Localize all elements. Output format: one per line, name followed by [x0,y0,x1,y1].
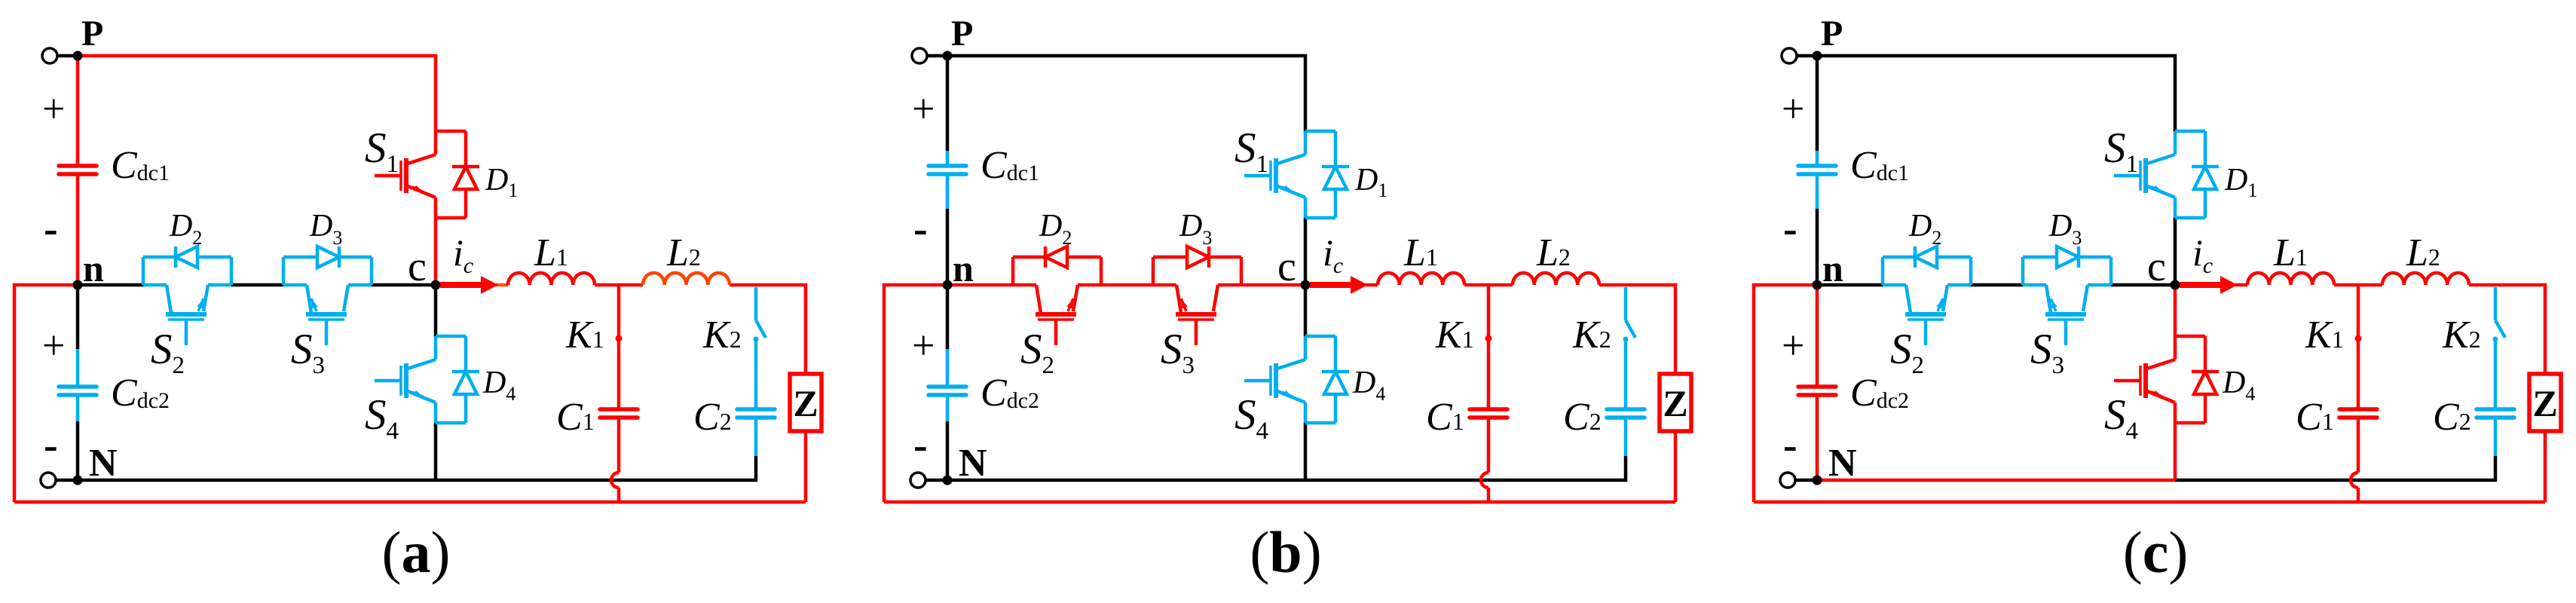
switch K2 (a) (open) [754,287,766,409]
svg-text:C2: C2 [2433,396,2471,439]
wire: hop to return rail (b) [1487,488,1491,502]
svg-text:-: - [1783,206,1797,253]
inductor L2 (c) [2382,273,2469,285]
wire: hop to return rail (a) [617,488,621,502]
transistor S3 (b) (IGBT) [1153,257,1241,345]
transistor S3 (a) (IGBT) [283,257,372,345]
svg-text:n: n [1822,247,1843,289]
wire: N rail left part (c) [1817,479,2175,482]
wire: N rail right part up to C2 (b) [1305,456,1626,480]
wire: P top rail to S1 collector (a) [78,56,436,131]
wire: S4 emitter to N rail (b) [1304,423,1308,480]
svg-text:Z: Z [2532,382,2557,424]
transistor S4 (a) (IGBT) [375,336,466,423]
current arrow ic (b) [1310,276,1368,294]
wire: node c to S4 (c) [2174,285,2177,336]
wire: red return rail (b) [884,500,1675,504]
svg-text:Cdc1: Cdc1 [981,144,1039,187]
switch K2 (b) (open) [1623,287,1636,409]
diode D3 (b) (antiparallel) [1153,246,1241,268]
wire: left rail n to Cdc2 (c) [1816,285,1819,349]
wire: left rail Cdc2 to N (a) [76,421,80,480]
svg-text:Cdc1: Cdc1 [1850,144,1909,187]
svg-text:n: n [83,247,104,289]
wire: N rail left part (b) [947,479,1305,482]
load Z (b) (impedance box) [1660,374,1691,431]
wire: Cdc1 stubs (b) [946,151,950,209]
wire: C2 down blue (c) [2494,419,2498,456]
current arrow ic (a) [440,276,498,294]
svg-text:ic: ic [1323,231,1343,278]
wire: P top rail to S1 collector (b) [947,56,1305,131]
node N dot (c) [1813,476,1822,485]
diode D1 (b) (antiparallel) [1322,131,1349,218]
transistor S3 (c) (IGBT) [2023,257,2111,345]
node N dot (a) [73,476,83,485]
svg-text:L1: L1 [2273,231,2308,274]
svg-text:Cdc2: Cdc2 [981,372,1039,415]
capacitor C1 (b) [1470,409,1507,418]
diode D3 (a) (antiparallel) [283,246,372,268]
svg-text:C1: C1 [1426,396,1464,439]
svg-text:S3: S3 [1161,326,1195,379]
terminal P circle (c) [1782,48,1797,63]
wire: left rail Cdc1 to node n (a) [76,209,80,285]
wire: L1 to L2 with K1 tap (a) [595,283,643,287]
svg-text:D3: D3 [2048,209,2082,249]
inductor L1 (a) [508,273,595,285]
wire: hop to return rail (c) [2357,488,2360,502]
svg-text:D4: D4 [1352,366,1385,405]
transistor S1 (b) (IGBT) [1244,131,1335,218]
svg-text:K2: K2 [2442,314,2481,357]
wire: N rail right part up to C2 (c) [2175,456,2495,480]
svg-text:D3: D3 [309,209,342,249]
svg-text:S1: S1 [2104,124,2138,178]
svg-text:L1: L1 [534,231,568,274]
svg-text:L1: L1 [1403,231,1438,274]
wire: N rail right part up to C2 (a) [436,456,756,480]
wire: arrow to L1 (a) [496,283,508,287]
svg-text:n: n [953,247,974,289]
svg-text:L2: L2 [666,231,701,274]
wire: C1 down (c) [2357,419,2360,473]
svg-text:+: + [912,323,935,368]
load Z (c) (impedance box) [2529,374,2561,431]
wire: left rail P to Cdc1 (a) [76,56,80,151]
inductor L1 (c) [2247,273,2334,285]
svg-text:S1: S1 [1234,124,1268,178]
svg-text:D2: D2 [169,209,202,249]
svg-text:P: P [81,14,103,54]
svg-text:ic: ic [2192,231,2213,278]
node n dot (b) [943,280,953,290]
svg-text:Z: Z [1663,382,1687,424]
svg-text:ic: ic [453,231,473,278]
node n dot (a) [73,280,83,290]
svg-text:Cdc1: Cdc1 [111,144,170,187]
wire: Cdc2 stubs (c) [1816,349,1819,421]
terminal N circle (a) [41,473,56,488]
wire: hop over N rail (c) [2351,473,2358,488]
inductor L2 (a) [643,273,730,285]
diode D4 (a) (antiparallel) [452,336,479,423]
transistor S4 (b) (IGBT) [1244,336,1335,423]
wire: L2 to Z (b) [1599,285,1675,374]
wire: S1 emitter to node c (c) [2174,218,2177,285]
svg-text:c: c [408,243,427,290]
svg-text:-: - [1783,422,1797,469]
diode D4 (b) (antiparallel) [1322,336,1349,423]
svg-text:S2: S2 [1020,326,1054,379]
svg-text:N: N [1828,442,1857,485]
svg-text:S4: S4 [365,391,399,445]
transistor S2 (c) (IGBT) [1883,257,1971,345]
node n dot (c) [1813,280,1822,290]
wire: N terminal stub (b) [925,479,947,482]
svg-text:D1: D1 [1354,163,1387,201]
inductor L2 (b) [1513,273,1599,285]
capacitor C2 (c) [2477,409,2514,418]
wire: C1 down (b) [1487,419,1491,473]
wire: Cdc1 stubs (a) [76,151,80,209]
svg-text:K1: K1 [1435,314,1474,357]
svg-text:S3: S3 [2030,326,2064,379]
capacitor Cdc2 (c) [1798,387,1836,395]
current arrow ic (c) [2180,276,2238,294]
load Z (a) (impedance box) [790,374,821,431]
transistor S2 (a) (IGBT) [143,257,231,345]
diode D1 (c) (antiparallel) [2192,131,2219,218]
wire: N terminal stub (c) [1795,479,1817,482]
wire: left rail Cdc1 to node n (b) [946,209,950,285]
capacitor C1 (c) [2339,409,2377,418]
wire: C2 down blue (a) [754,419,758,456]
transistor S1 (c) (IGBT) [2114,131,2205,218]
capacitor Cdc2 (b) [929,387,966,395]
terminal P circle (a) [42,48,57,63]
wire: L1 to L2 with K1 tap (b) [1464,283,1513,287]
svg-text:C1: C1 [556,396,595,439]
svg-text:L2: L2 [1536,231,1571,274]
wire: left rail Cdc2 to N (b) [946,421,950,480]
svg-text:S3: S3 [291,326,325,379]
svg-text:-: - [44,206,58,253]
wire: left rail n to Cdc2 (b) [946,285,950,349]
wire: left rail Cdc2 to N (c) [1816,421,1819,480]
wire: arrow to L1 (b) [1366,283,1378,287]
svg-text:D2: D2 [1039,209,1072,249]
transistor S2 (b) (IGBT) [1013,257,1101,345]
wire: red loop n to bottom-left (c) [1754,285,1817,502]
svg-text:C1: C1 [2296,396,2334,439]
svg-text:S4: S4 [2104,391,2138,445]
wire: S1 emitter to node c (a) [434,218,438,285]
wire: Z to return rail (c) [2544,431,2547,502]
wire: red return rail (a) [14,500,806,504]
svg-text:+: + [1782,323,1804,368]
diode D1 (a) (antiparallel) [452,131,479,218]
inductor L1 (b) [1378,273,1464,285]
svg-text:+: + [912,86,935,131]
wire: N rail left part (a) [78,479,436,482]
node c dot (c) [2171,280,2180,290]
svg-text:Z: Z [793,382,818,424]
wire: arrow to L1 (c) [2235,283,2247,287]
svg-text:D4: D4 [2222,366,2255,405]
svg-text:S1: S1 [365,124,399,178]
wire: C1 down (a) [617,419,621,473]
diode D3 (c) (antiparallel) [2023,246,2111,268]
wire: node c to S4 (b) [1304,285,1308,336]
wire: P top rail to S1 collector (c) [1817,56,2175,131]
svg-text:K2: K2 [1572,314,1611,357]
svg-text:D2: D2 [1908,209,1941,249]
svg-text:c: c [1277,243,1296,290]
transistor S1 (a) (IGBT) [375,131,466,218]
node P dot (b) [943,51,953,61]
wire: C2 down blue (b) [1624,419,1628,456]
svg-text:C2: C2 [1563,396,1602,439]
svg-text:P: P [951,14,973,54]
wire: left rail P to Cdc1 (b) [946,56,950,151]
diode D2 (c) (antiparallel) [1883,246,1971,268]
terminal N circle (b) [910,473,925,488]
svg-text:+: + [42,323,65,368]
svg-text:+: + [1782,86,1804,131]
svg-text:N: N [89,442,118,485]
svg-text:S2: S2 [1890,326,1924,379]
svg-text:L2: L2 [2406,231,2440,274]
svg-text:S2: S2 [151,326,185,379]
svg-text:c: c [2147,243,2166,290]
wire: S4 emitter to N rail (a) [434,423,438,480]
wire: n to c horizontal (a) [78,283,436,287]
wire: Z to return rail (b) [1674,431,1678,502]
wire: S4 emitter to N rail (c) [2174,423,2177,480]
svg-text:K1: K1 [2305,314,2344,357]
wire: node c to S4 (a) [434,285,438,336]
svg-text:D3: D3 [1179,209,1212,249]
terminal N circle (c) [1780,473,1795,488]
svg-text:Cdc2: Cdc2 [1850,372,1909,415]
svg-text:N: N [959,442,987,485]
wire: hop over N rail (a) [611,473,619,488]
wire: left rail Cdc1 to node n (c) [1816,209,1819,285]
terminal P circle (b) [912,48,927,63]
svg-text:-: - [913,422,928,469]
svg-text:C2: C2 [693,396,732,439]
wire: n to c horizontal (b) [947,283,1305,287]
switch K1 (b) (closed) [1485,286,1492,409]
svg-text:K2: K2 [702,314,742,357]
svg-text:(b): (b) [1250,519,1321,585]
svg-text:D1: D1 [485,163,518,201]
svg-text:(c): (c) [2123,519,2189,585]
capacitor Cdc2 (a) [59,387,96,395]
node N dot (b) [943,476,953,485]
wire: Z to return rail (a) [804,431,808,502]
diode D2 (a) (antiparallel) [143,246,231,268]
wire: red return rail (c) [1754,500,2545,504]
switch K1 (c) (closed) [2355,286,2362,409]
capacitor Cdc1 (a) [59,166,96,174]
wire: left rail n to Cdc2 (a) [76,285,80,349]
wire: Cdc2 stubs (a) [76,349,80,421]
svg-text:Cdc2: Cdc2 [111,372,170,415]
wire: P terminal stub (b) [927,54,947,58]
node P dot (c) [1813,51,1822,61]
wire: P terminal stub (c) [1797,54,1817,58]
svg-text:(a): (a) [382,519,451,585]
wire: P terminal stub (a) [57,54,78,58]
switch K2 (c) (open) [2493,287,2506,409]
node c dot (a) [431,280,441,290]
svg-text:P: P [1821,14,1843,54]
node c dot (b) [1301,280,1311,290]
capacitor C2 (b) [1607,409,1644,418]
wire: S1 emitter to node c (b) [1304,218,1308,285]
wire: left rail P to Cdc1 (c) [1816,56,1819,151]
svg-text:D4: D4 [482,366,516,405]
capacitor Cdc1 (b) [929,166,966,174]
wire: L2 to Z (c) [2469,285,2545,374]
capacitor Cdc1 (c) [1798,166,1836,174]
svg-text:S4: S4 [1234,391,1268,445]
wire: L2 to Z (a) [730,285,806,374]
switch K1 (a) (closed) [616,286,623,409]
wire: Cdc2 stubs (b) [946,349,950,421]
svg-text:D1: D1 [2224,163,2257,201]
svg-text:-: - [44,422,58,469]
wire: L1 to L2 with K1 tap (c) [2334,283,2382,287]
wire: n to c horizontal (c) [1817,283,2175,287]
wire: red loop n to bottom-left (b) [884,285,947,502]
diode D2 (b) (antiparallel) [1013,246,1101,268]
svg-text:+: + [42,86,65,131]
capacitor C2 (a) [737,409,775,418]
node P dot (a) [73,51,83,61]
svg-text:-: - [913,206,928,253]
wire: N terminal stub (a) [56,479,78,482]
transistor S4 (c) (IGBT) [2114,336,2205,423]
diode D4 (c) (antiparallel) [2192,336,2219,423]
capacitor C1 (a) [600,409,638,418]
svg-text:K1: K1 [565,314,604,357]
wire: Cdc1 stubs (c) [1816,151,1819,209]
wire: hop over N rail (b) [1481,473,1488,488]
wire: red loop n to bottom-left (a) [14,285,78,502]
